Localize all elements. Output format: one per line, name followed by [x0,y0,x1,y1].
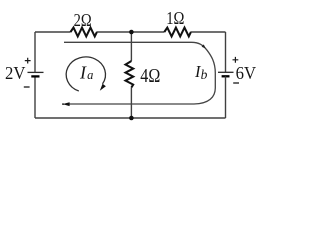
voltage source V2 6V battery [218,72,234,76]
arrowhead of Ia [100,84,106,91]
arrowhead at bottom left end of Ib loop [62,102,69,106]
svg-text:2Ω: 2Ω [74,10,92,30]
svg-text:I: I [79,63,87,83]
svg-text:4Ω: 4Ω [140,65,160,87]
mesh current Ia circular arrow [66,57,105,91]
resistor R2 1ohm zigzag [164,28,191,37]
wire bottom [35,117,226,119]
minus sign of V2 [233,82,239,84]
voltage source V1 2V battery [28,72,44,76]
wire right side upper [225,32,227,72]
wire top-middle segment [97,31,164,33]
minus sign of V1 [24,86,30,88]
wire top-right segment [191,31,226,33]
svg-text:1Ω: 1Ω [166,8,184,28]
wire left side upper [34,32,36,72]
plus sign of V2 [233,57,239,63]
svg-text:2V: 2V [5,63,25,83]
svg-text:6V: 6V [236,63,256,83]
resistor R3 4ohm vertical zigzag [126,61,134,88]
wire right side lower [225,76,227,118]
wire top-left segment [35,31,71,33]
junction node dot top of middle branch [129,30,134,35]
loop current Ib path [64,42,215,104]
plus sign of V1 [25,58,31,64]
wire middle branch upper [130,32,132,61]
wire middle branch lower [130,88,132,119]
junction node dot bottom of middle branch [129,116,134,121]
svg-text:a: a [87,68,93,82]
arrowhead on top right of Ib loop [202,44,206,48]
resistor R1 2ohm zigzag [71,28,98,37]
svg-text:b: b [201,67,208,82]
wire left side lower [34,76,36,118]
